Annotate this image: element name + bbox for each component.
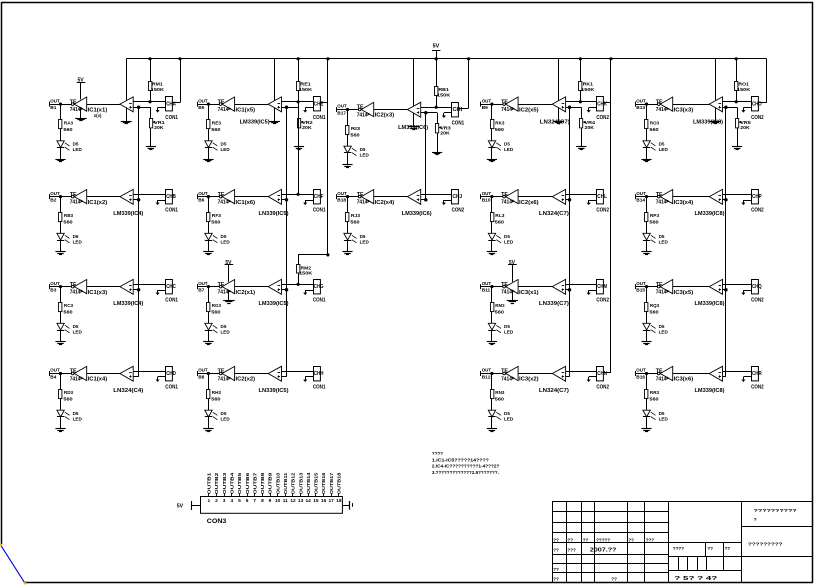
resistor RQ3 560 <box>646 287 648 303</box>
svg-text:VR3: VR3 <box>440 125 451 131</box>
svg-text:B1: B1 <box>50 105 56 111</box>
junction + input / ref bus <box>137 198 141 202</box>
resistor RK1 150K (pull-up) <box>580 59 582 82</box>
LED D6 <box>60 221 62 233</box>
svg-text:RG3: RG3 <box>212 303 221 309</box>
svg-text:150K: 150K <box>737 87 751 93</box>
svg-text:?????: ????? <box>596 537 610 542</box>
wire - input <box>133 101 165 103</box>
svg-text:2.IC4-IC??????????1-4???2?: 2.IC4-IC??????????1-4???2? <box>432 464 500 469</box>
power 5V (comparator) <box>558 59 560 101</box>
ground (LED) <box>491 148 493 160</box>
svg-text:CHD: CHD <box>166 371 176 377</box>
wire + input <box>723 376 726 378</box>
svg-text:RB1: RB1 <box>438 87 449 93</box>
svg-text:IC1(x2): IC1(x2) <box>88 200 108 206</box>
svg-text:RA3: RA3 <box>64 121 74 127</box>
comparator LN339(C7) <box>552 279 565 294</box>
wire RM to - net <box>298 90 300 102</box>
wire - input <box>723 284 752 286</box>
svg-text:LN339(IC5): LN339(IC5) <box>259 388 289 394</box>
svg-text:LED: LED <box>73 417 83 422</box>
connector CON2 (CHM) <box>597 280 604 294</box>
svg-text:B16: B16 <box>636 374 645 380</box>
svg-text:CON2: CON2 <box>596 115 609 121</box>
svg-text:VR2: VR2 <box>302 120 313 126</box>
wire inverter-comparator <box>374 196 408 198</box>
junction RM / - net <box>435 106 438 109</box>
wire - input <box>566 194 597 196</box>
inverter IC2(x6) 7414 <box>503 195 506 198</box>
comparator LM339(IC6) <box>407 102 420 117</box>
comparator LN339(IC5) <box>268 189 281 204</box>
svg-text:VR5: VR5 <box>740 120 751 126</box>
svg-text:CON1: CON1 <box>313 115 326 121</box>
svg-text:2007.??: 2007.?? <box>590 548 617 554</box>
ground (comparator) <box>274 108 276 122</box>
inverter IC3(x1) 7414 <box>503 285 506 288</box>
svg-text:CON1: CON1 <box>452 121 465 127</box>
wire inverter-comparator <box>518 286 552 288</box>
svg-text:5: 5 <box>238 498 241 504</box>
svg-text:CON1: CON1 <box>313 385 326 391</box>
svg-text:B11: B11 <box>482 287 491 293</box>
svg-text:OUTB6: OUTB6 <box>245 472 250 494</box>
svg-text:CHF: CHF <box>314 194 324 200</box>
ground arrow (connector) <box>444 200 452 202</box>
inverter IC3(x4) 7414 <box>657 195 660 198</box>
wire OUT stub <box>481 373 503 375</box>
svg-text:OUT: OUT <box>636 191 646 197</box>
inverter IC3(x2) 7414 <box>503 372 506 375</box>
net REF bus column 5 <box>725 107 727 376</box>
svg-text:? 5? ? 4?: ? 5? ? 4? <box>674 576 717 582</box>
comparator LN324(C4) <box>120 366 133 381</box>
svg-text:D5: D5 <box>221 324 227 329</box>
svg-text:CHM: CHM <box>597 284 607 290</box>
svg-text:OUT: OUT <box>337 104 347 110</box>
svg-text:OUT: OUT <box>482 98 492 104</box>
svg-text:16: 16 <box>321 498 327 504</box>
svg-text:CON1: CON1 <box>165 115 178 121</box>
svg-text:560: 560 <box>649 397 659 403</box>
svg-text:TE: TE <box>218 192 226 198</box>
inverter IC2(x3) 7414 <box>358 108 361 111</box>
junction <box>59 285 62 288</box>
ground arrow (connector) <box>589 290 597 292</box>
svg-text:20K: 20K <box>154 125 164 131</box>
svg-text:RC3: RC3 <box>64 303 74 309</box>
ground (LED) <box>60 330 62 342</box>
svg-text:CHR: CHR <box>752 371 762 377</box>
svg-text:TE: TE <box>656 99 664 105</box>
svg-text:TE: TE <box>357 105 365 111</box>
svg-text:560: 560 <box>350 220 360 226</box>
ground (comparator) <box>558 108 560 122</box>
wire 5V drop to connector <box>609 57 612 60</box>
svg-text:RB3: RB3 <box>64 213 74 219</box>
connector CON3 <box>201 497 343 514</box>
wire + input <box>282 199 287 201</box>
ground (LED) <box>60 240 62 252</box>
svg-text:RM2: RM2 <box>301 265 312 271</box>
junction + input / ref bus <box>724 288 728 292</box>
svg-text:D5: D5 <box>73 324 79 329</box>
svg-text:560: 560 <box>495 310 505 316</box>
svg-text:560: 560 <box>495 127 505 133</box>
svg-text:LED: LED <box>504 417 514 422</box>
connector CON1 (CHE) <box>314 97 321 111</box>
svg-text:OUTB15: OUTB15 <box>314 472 319 494</box>
node OUT B4 <box>49 371 51 376</box>
resistor RM2 150K (pull-up row3) <box>298 255 300 265</box>
net REF bus column 1 <box>138 107 140 376</box>
svg-text:560: 560 <box>495 220 505 226</box>
junction <box>490 285 493 288</box>
LED D5 <box>646 398 648 410</box>
node OUT B3 <box>49 284 51 289</box>
resistor RH3 560 <box>208 374 210 390</box>
wire + input <box>282 289 287 291</box>
junction <box>59 103 62 106</box>
junction + input / ref bus <box>137 106 141 110</box>
ground arrow (connector) <box>158 200 166 202</box>
svg-text:LM339(IC6): LM339(IC6) <box>402 211 432 217</box>
resistor RJ3 560 <box>347 197 349 213</box>
svg-text:D5: D5 <box>360 234 366 239</box>
inverter IC3(x5) 7414 <box>657 285 660 288</box>
svg-text:RM3: RM3 <box>495 303 504 309</box>
svg-text:IC3(x3): IC3(x3) <box>674 107 694 113</box>
svg-text:LM339(IC8): LM339(IC8) <box>695 388 725 394</box>
inverter IC1(x1) 7414 <box>71 103 74 106</box>
svg-text:560: 560 <box>63 310 73 316</box>
wire OUT stub <box>481 196 503 198</box>
svg-text:TE: TE <box>501 192 509 198</box>
svg-text:TE: TE <box>218 369 226 375</box>
wire inverter-comparator <box>673 196 710 198</box>
wire - input <box>282 371 314 373</box>
ground arrow (connector) <box>444 112 452 114</box>
svg-text:CON2: CON2 <box>596 385 609 391</box>
svg-text:CON2: CON2 <box>596 298 609 304</box>
svg-text:CON1: CON1 <box>313 208 326 214</box>
svg-text:TE: TE <box>656 192 664 198</box>
svg-text:B15: B15 <box>636 287 645 293</box>
svg-text:12: 12 <box>290 498 296 504</box>
svg-text:OUT: OUT <box>482 368 492 374</box>
comparator LM339(IC8) <box>709 97 722 112</box>
node OUT B15 <box>635 284 637 289</box>
svg-text:RI3: RI3 <box>351 126 361 132</box>
endpoint marker <box>24 582 26 584</box>
resistor RC3 560 <box>60 287 62 303</box>
connector CON1 (CHC) <box>166 280 173 294</box>
comparator LM339(IC8) <box>709 366 722 381</box>
wire inverter-comparator <box>235 104 269 106</box>
wire RM to - net <box>436 96 438 108</box>
wire + input <box>566 376 570 378</box>
svg-text:TE: TE <box>70 99 78 105</box>
svg-text:150K: 150K <box>437 92 451 98</box>
svg-text:?: ? <box>754 517 757 523</box>
junction <box>645 103 648 106</box>
svg-text:CON2: CON2 <box>452 208 465 214</box>
wire + input <box>566 107 570 109</box>
svg-text:LED: LED <box>73 147 83 152</box>
comparator LM339(IC6) <box>407 189 420 204</box>
wire + input <box>133 289 138 291</box>
svg-text:CON2: CON2 <box>751 298 764 304</box>
svg-text:LED: LED <box>504 240 514 245</box>
junction + input / ref bus <box>724 198 728 202</box>
svg-text:TE: TE <box>70 369 78 375</box>
resistor RN3 560 <box>491 374 493 390</box>
wire - input <box>421 107 452 109</box>
svg-text:150K: 150K <box>299 87 313 93</box>
power 5V (comparator) <box>126 59 128 101</box>
LED D5 <box>646 221 648 233</box>
wire inverter-comparator <box>87 196 120 198</box>
potentiometer VR1 20K <box>139 107 151 109</box>
svg-text:LM339(IC8): LM339(IC8) <box>695 211 725 217</box>
junction bus dot <box>435 57 438 60</box>
wire - input <box>566 101 597 103</box>
potentiometer VR4 20K <box>570 107 582 109</box>
svg-text:OUT: OUT <box>198 191 208 197</box>
comparator LM339 <box>120 97 133 112</box>
wire + input <box>133 199 138 201</box>
svg-text:LN324(C7): LN324(C7) <box>539 211 569 217</box>
svg-text:B13: B13 <box>636 105 645 111</box>
svg-text:B12: B12 <box>482 374 491 380</box>
ground (VR) <box>737 128 739 147</box>
ground arrow (connector) <box>589 376 597 378</box>
svg-text:LED: LED <box>659 240 669 245</box>
svg-text:OUTB11: OUTB11 <box>283 472 288 494</box>
connector CON1 (CHD) <box>166 367 173 381</box>
svg-text:LED: LED <box>659 147 669 152</box>
svg-text:RK1: RK1 <box>583 82 594 88</box>
svg-text:7414: 7414 <box>218 377 229 383</box>
svg-text:18: 18 <box>336 498 342 504</box>
resistor RM1 150K (pull-up) <box>150 59 152 82</box>
svg-text:TE: TE <box>656 369 664 375</box>
svg-text:IC2(x1): IC2(x1) <box>236 290 256 296</box>
junction bus dot <box>148 57 151 60</box>
ground (CON3 right) <box>342 505 349 507</box>
ground (7414) <box>80 108 82 118</box>
junction <box>346 195 349 198</box>
svg-text:CON3: CON3 <box>207 519 227 525</box>
LED D5 <box>208 129 210 141</box>
svg-text:LED: LED <box>360 153 370 158</box>
svg-text:7414: 7414 <box>501 200 512 206</box>
svg-text:4: 4 <box>230 498 233 504</box>
svg-text:RJ3: RJ3 <box>351 213 361 219</box>
comparator LN324(C7) <box>552 366 565 381</box>
junction + input / ref bus <box>568 106 572 110</box>
inverter IC2(x2) 7414 <box>219 372 222 375</box>
LED D5 <box>347 221 349 233</box>
svg-text:OUT: OUT <box>50 281 60 287</box>
svg-text:???: ??? <box>567 548 576 553</box>
svg-text:OUTB14: OUTB14 <box>306 472 311 494</box>
ground arrow (connector) <box>305 200 313 202</box>
ground arrow (connector) <box>589 107 597 109</box>
svg-text:RD3: RD3 <box>64 390 74 396</box>
ground (LED) <box>491 240 493 252</box>
svg-text:D5: D5 <box>659 234 665 239</box>
resistor RP3 560 <box>646 197 648 213</box>
svg-text:CHP: CHP <box>752 194 762 200</box>
wire 5V drop continues <box>327 103 329 255</box>
svg-text:560: 560 <box>63 220 73 226</box>
wire OUT stub <box>49 196 71 198</box>
svg-text:OUT: OUT <box>50 98 60 104</box>
node OUT B6 <box>197 194 199 199</box>
wire 5V drop to row4 connector <box>604 372 611 374</box>
svg-text:TE: TE <box>501 282 509 288</box>
svg-text:CHJ: CHJ <box>453 194 463 200</box>
svg-text:CON1: CON1 <box>165 208 178 214</box>
svg-text:OUTB12: OUTB12 <box>291 472 296 494</box>
svg-text:IC3(x2): IC3(x2) <box>519 377 539 383</box>
node OUT B18 <box>336 194 338 199</box>
svg-text:B5: B5 <box>198 105 204 111</box>
svg-text:560: 560 <box>211 220 221 226</box>
svg-text:7414: 7414 <box>70 200 81 206</box>
svg-text:TE: TE <box>70 282 78 288</box>
svg-text:OUTB1: OUTB1 <box>207 472 212 494</box>
wire 5V drop to connector <box>178 57 181 60</box>
inverter IC2(x4) 7414 <box>358 195 361 198</box>
wire OUT stub <box>197 196 219 198</box>
svg-text:IC2(x5): IC2(x5) <box>519 107 539 113</box>
ground arrow (connector) <box>158 290 166 292</box>
comparator LM339(IC4) <box>120 189 133 204</box>
ground (LED) <box>60 148 62 160</box>
ground arrow (connector) <box>305 290 313 292</box>
svg-text:TE: TE <box>218 99 226 105</box>
svg-text:LED: LED <box>73 240 83 245</box>
junction bus dot <box>579 57 582 60</box>
wire - input <box>133 194 165 196</box>
ground (LED) <box>208 417 210 429</box>
svg-text:CON2: CON2 <box>751 385 764 391</box>
wire + input <box>133 376 138 378</box>
comparator LM339(IC8) <box>709 189 722 204</box>
svg-text:17: 17 <box>329 498 335 504</box>
wire RM to - net <box>150 90 152 102</box>
resistor RE3 560 <box>208 104 210 120</box>
wire inverter-comparator <box>235 196 269 198</box>
svg-text:RK3: RK3 <box>495 121 505 127</box>
wire + input <box>723 199 726 201</box>
junction + input / ref bus <box>137 288 141 292</box>
junction <box>645 372 648 375</box>
svg-text:IC1(x3): IC1(x3) <box>88 290 108 296</box>
svg-text:RE3: RE3 <box>212 121 222 127</box>
svg-text:D5: D5 <box>659 324 665 329</box>
ground (VR) <box>298 128 300 147</box>
junction <box>207 195 210 198</box>
svg-text:RQ3: RQ3 <box>650 303 659 309</box>
svg-text:LM339(IC4): LM339(IC4) <box>113 211 143 217</box>
svg-text:7414: 7414 <box>70 107 81 113</box>
wire 5V drop to connector <box>766 59 768 103</box>
svg-text:TE: TE <box>501 99 509 105</box>
potentiometer VR3 20K <box>426 112 437 114</box>
wire inverter-comparator <box>87 104 120 106</box>
svg-text:IC2(x2): IC2(x2) <box>236 377 256 383</box>
svg-text:OUTB5: OUTB5 <box>237 472 242 494</box>
svg-text:CON1: CON1 <box>165 298 178 304</box>
svg-text:560: 560 <box>649 310 659 316</box>
ground (comparator) <box>413 113 415 127</box>
svg-text:?????????: ????????? <box>748 542 783 548</box>
power 5V (comparator) <box>274 59 276 101</box>
junction RM / - net <box>579 100 582 103</box>
svg-text:LM339(IC8): LM339(IC8) <box>695 301 725 307</box>
potentiometer VR5 20K <box>726 107 737 109</box>
ground (LED) <box>347 240 349 252</box>
wire - input <box>282 101 314 103</box>
svg-text:CHC: CHC <box>166 284 176 290</box>
inverter IC1(x2) 7414 <box>71 195 74 198</box>
wire - input <box>133 284 165 286</box>
svg-text:??: ?? <box>553 577 559 582</box>
ground arrow (connector) <box>158 107 166 109</box>
svg-text:560: 560 <box>63 397 73 403</box>
svg-text:OUTB10: OUTB10 <box>275 472 280 494</box>
resistor RE1 150K (pull-up) <box>298 59 300 82</box>
svg-text:B9: B9 <box>482 105 488 111</box>
ground arrow (connector) <box>158 376 166 378</box>
potentiometer VR2 20K <box>287 107 300 109</box>
ground (LED) <box>491 417 493 429</box>
svg-text:B14: B14 <box>636 197 645 203</box>
LED D5 <box>60 129 62 141</box>
svg-text:13: 13 <box>298 498 304 504</box>
ground (LED) <box>646 148 648 160</box>
svg-text:LN339(C7): LN339(C7) <box>539 301 569 307</box>
svg-text:CHG: CHG <box>314 284 324 290</box>
svg-text:OUT: OUT <box>636 98 646 104</box>
svg-text:OUTB17: OUTB17 <box>329 472 334 494</box>
wire - input <box>723 194 752 196</box>
node OUT B7 <box>197 284 199 289</box>
svg-text:D5: D5 <box>659 411 665 416</box>
svg-text:2: 2 <box>215 498 218 504</box>
svg-text:D6: D6 <box>73 234 79 239</box>
node OUT B11 <box>480 284 482 289</box>
junction <box>59 372 62 375</box>
wire 5V drop to connector <box>467 57 470 60</box>
svg-text:OUT: OUT <box>50 191 60 197</box>
svg-text:OUT: OUT <box>337 191 347 197</box>
frame right border <box>812 2 814 583</box>
wire - input <box>723 371 752 373</box>
svg-text:LN324(C4): LN324(C4) <box>113 388 143 394</box>
connector CON1 (CHA) <box>166 97 173 111</box>
wire OUT stub <box>197 286 219 288</box>
ground (LED) <box>646 417 648 429</box>
svg-text:1.IC1-IC5?????14????: 1.IC1-IC5?????14???? <box>432 457 489 462</box>
junction <box>346 108 349 111</box>
junction RM / - net <box>297 100 300 103</box>
ground (7414) <box>512 291 514 301</box>
